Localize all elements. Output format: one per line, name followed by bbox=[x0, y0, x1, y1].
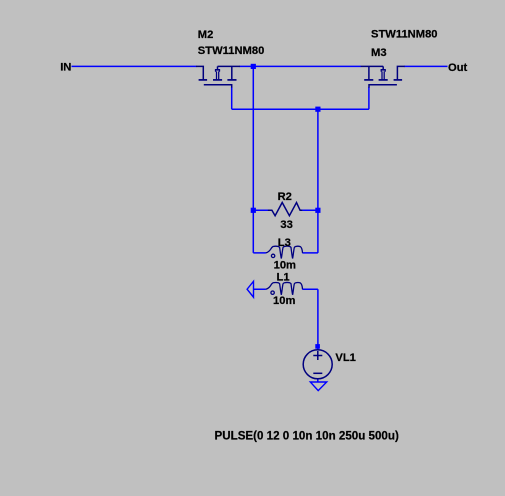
svg-text:R2: R2 bbox=[278, 191, 292, 203]
svg-text:PULSE(0 12 0 10n 10n 250u 500u: PULSE(0 12 0 10n 10n 250u 500u) bbox=[215, 430, 399, 443]
svg-text:STW11NM80: STW11NM80 bbox=[198, 45, 265, 57]
svg-text:M3: M3 bbox=[371, 47, 387, 59]
svg-text:VL1: VL1 bbox=[335, 352, 356, 364]
svg-text:L3: L3 bbox=[278, 237, 291, 249]
svg-text:M2: M2 bbox=[198, 29, 214, 41]
svg-text:10m: 10m bbox=[273, 295, 295, 307]
svg-text:10m: 10m bbox=[274, 260, 296, 272]
svg-text:STW11NM80: STW11NM80 bbox=[371, 28, 438, 40]
svg-text:Out: Out bbox=[448, 62, 468, 74]
svg-text:L1: L1 bbox=[277, 272, 290, 284]
svg-text:33: 33 bbox=[280, 219, 292, 231]
svg-text:IN: IN bbox=[60, 62, 71, 74]
